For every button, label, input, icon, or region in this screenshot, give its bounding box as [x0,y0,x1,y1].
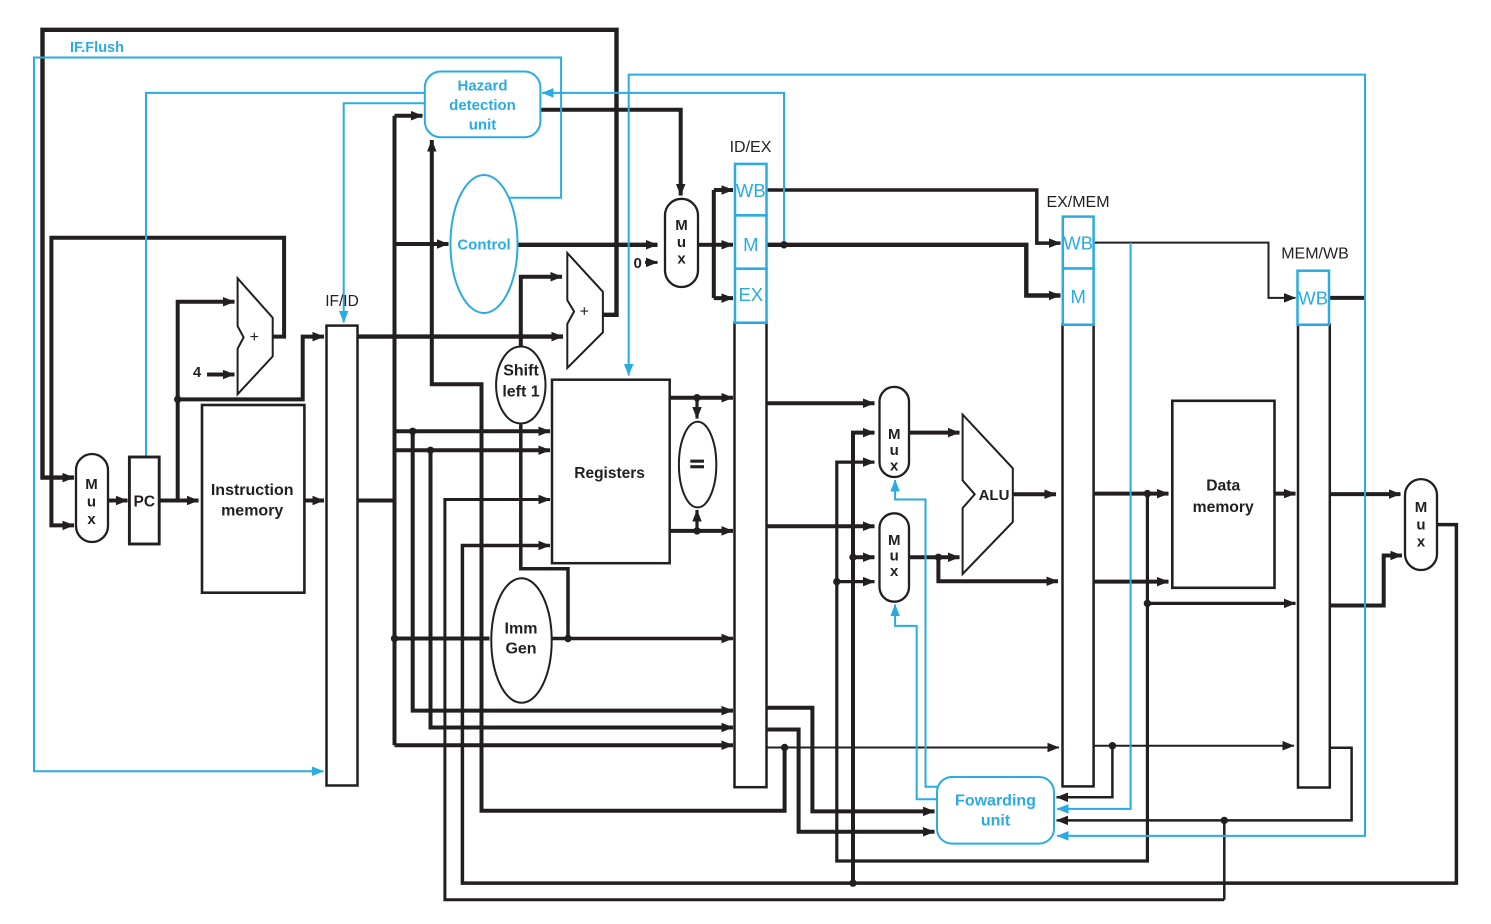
wire PCWrite: hazard unit to PC [146,93,425,456]
pipeline register MEM/WB WB box [1298,271,1330,325]
wire rs1 field down into ID/EX [413,431,733,710]
svg-text:Gen: Gen [505,641,536,658]
svg-text:Data: Data [1206,478,1240,495]
wire IF/ID PC out to adder2 lower input [358,334,564,338]
memory: Instruction memory [202,405,304,593]
wire constant 0 into flush mux [645,261,658,264]
unit: Control ellipse [451,175,518,313]
wire EX/MEM WB bundle to MEM/WB WB [1094,243,1296,298]
wire forward mux B output to ALU [909,555,960,559]
node: PC tap junction [174,396,181,403]
wire RegWrite: MEM/WB WB over the top down to Registers [629,75,1365,376]
wire MEM/WB WB bundle to RegWrite junction [1330,296,1365,300]
svg-text:u: u [890,548,899,565]
mux M1: control zero flush mux [665,199,698,287]
memory: Data memory [1172,401,1274,588]
wire EX/MEM store data to Data memory write port [1094,580,1169,584]
svg-text:ALU: ALU [979,487,1010,504]
svg-text:x: x [890,563,899,580]
svg-text:WB: WB [1063,232,1093,253]
node: WB forward tap at mux B [849,554,856,561]
svg-text:unit: unit [981,812,1011,829]
wire write-back data bus: final mux output down and left to Registers write data [462,525,1456,884]
svg-text:WB: WB [736,180,766,201]
pipeline register ID/EX WB box [735,164,767,216]
wire Imm Gen output to ID/EX [552,637,733,641]
wire Instruction memory to IF/ID [304,499,324,503]
unit: ALU [963,415,1013,574]
pipeline register EX/MEM M box [1063,269,1094,325]
node: write-back bus forward tap [849,879,856,886]
svg-text:u: u [1416,517,1425,534]
wire flush mux output bracket to ID/EX WB M EX [698,243,714,247]
unit: Fowarding unit [937,777,1054,844]
wire ForwardA: forwarding unit to mux A select [895,480,937,787]
svg-text:x: x [87,511,96,528]
wire hazard unit output to flush mux select [540,110,680,196]
wire MEM/WB rd around to forwarding unit [1057,748,1352,821]
wire tap into equality comparator bottom [695,510,698,531]
svg-text:M: M [888,426,901,443]
wire MEM/WB ALU result to final mux [1330,556,1402,606]
wire ForwardB: forwarding unit to mux B select [895,605,937,800]
wire PC tap riser to adder1 upper input [178,302,235,501]
svg-text:0: 0 [634,255,642,272]
adder A1: PC+4 adder [238,278,273,394]
svg-text:IF/ID: IF/ID [325,293,359,310]
wire EX/MEM RegWrite down to forwarding unit [1057,243,1131,809]
svg-text:ID/EX: ID/EX [730,139,772,156]
wire read register 1 into Registers [395,429,551,433]
wire ALU result to EX/MEM [1013,492,1056,496]
mux M0: PC source mux [76,454,108,542]
wire EX/MEM ALU result forward loop to mux A input 2 [837,462,1148,861]
wire WB-forward riser to mux A input 1 [853,433,875,883]
pipeline register IF/ID [327,326,358,786]
node: EX/MEM ALU result forward tap [1144,490,1151,497]
svg-text:M: M [85,476,98,493]
mux M2: forward mux A [880,387,910,477]
svg-text:+: + [580,304,589,321]
wire Registers read data 2 to ID/EX [670,529,733,533]
wire ID/EX rs2 to forwarding unit [767,730,935,832]
svg-text:IF.Flush: IF.Flush [70,40,124,56]
wire IF/ID Write: hazard unit to IF/ID [344,103,425,322]
wire PC mux output to PC [108,499,128,503]
wire MEM/WB read data to final mux [1330,492,1401,496]
wire forward mux A output to ALU [909,431,960,435]
wire ID/EX read data 1 to forward mux A [767,401,875,405]
node: EX/MEM forward tap at mux B [833,578,840,585]
svg-text:Hazard: Hazard [457,77,507,94]
mux M4: write-back mux [1405,479,1437,570]
svg-text:Instruction: Instruction [211,482,294,499]
svg-text:Registers: Registers [574,465,645,482]
wire WB-forward tap to mux B input 1 [853,555,875,559]
register file: Registers [552,380,670,564]
wire ID/EX rd to EX/MEM [767,747,1060,749]
wire EX/MEM ALU result to Data memory address [1094,492,1169,496]
svg-text:M: M [1070,286,1085,307]
svg-text:u: u [87,494,96,511]
wire IF.Flush: from Control around top-left down to IF/ID flush input [34,58,561,772]
wire ID/EX.MemRead tap up to hazard detection unit [542,93,784,245]
wire MEM/WB rd tap down to write register bus [1223,820,1226,899]
mux M3: forward mux B [880,513,910,601]
svg-text:WB: WB [1298,287,1328,308]
node: instruction to Imm Gen junction [391,635,398,642]
svg-text:x: x [1417,534,1426,551]
svg-text:left 1: left 1 [502,384,539,401]
wire ID/EX M bundle to EX/MEM M [767,245,1061,296]
svg-text:M: M [743,234,758,255]
wire Registers read data 1 to ID/EX [670,396,733,400]
wire EX/MEM rd tap to forwarding unit [1057,746,1113,798]
node: immediate to shift junction [564,635,571,642]
wire PC value to IF/ID [178,337,324,400]
node: MEM/WB rd tap [1221,817,1228,824]
wire immediate tap to Shift left 1 input [521,425,568,639]
svg-text:u: u [890,442,899,459]
svg-text:MEM/WB: MEM/WB [1281,246,1349,263]
label comparator equals [690,460,704,469]
svg-text:u: u [677,234,686,251]
svg-text:unit: unit [469,117,497,134]
svg-text:PC: PC [134,494,156,511]
pipeline register ID/EX EX box [735,269,767,323]
svg-text:Imm: Imm [505,621,538,638]
svg-text:x: x [677,251,686,268]
wire store data from mux B to EX/MEM [938,557,1058,581]
svg-text:memory: memory [221,502,283,519]
svg-text:EX/MEM: EX/MEM [1046,194,1109,211]
pipeline register EX/MEM WB box [1063,217,1094,269]
svg-text:4: 4 [193,364,202,381]
pipeline register EX/MEM body [1063,325,1094,787]
wire EX/MEM rd to MEM/WB [1094,745,1294,747]
comparator: equality test ellipse [679,422,716,508]
pipeline register ID/EX body [735,323,767,788]
wire ID/EX rs1 to forwarding unit [767,708,935,812]
node: rs2 tap junction [427,447,434,454]
svg-text:Shift: Shift [503,363,539,380]
node: read data 2 comparator tap [693,527,700,534]
unit: Hazard detection unit [425,72,541,138]
pipeline register ID/EX M box [735,215,767,268]
wire Shift left 1 output to adder2 [521,277,562,346]
wire EX/MEM ALU result tap to MEM/WB [1147,602,1295,605]
svg-text:M: M [675,217,688,234]
node: ALU result to MEM/WB tap [1144,600,1151,607]
wire ID/EX read data 2 to forward mux B [767,524,875,528]
node: store data tap [935,554,942,561]
wire rs2 field down into ID/EX [431,450,734,727]
node: ID/EX MemRead tap [780,241,787,248]
unit: Imm Gen ellipse [491,578,551,703]
register PC [129,457,159,544]
unit: Shift left 1 ellipse [496,347,545,424]
node: read data 1 comparator tap [693,394,700,401]
svg-text:M: M [1415,499,1428,516]
wire write register number bus back to Registers write register [445,500,1224,900]
wire EX/MEM ALU forward tap to mux B input 2 [837,580,875,583]
svg-text:M: M [888,532,901,549]
svg-text:Fowarding: Fowarding [955,792,1036,809]
pipeline register MEM/WB body [1298,325,1330,788]
wire instruction bus: IF/ID out, vertical trunk, top branch to hazard unit [358,499,395,503]
wire PC+4 return: adder1 output right, up, left along y=237.7, down to PC mux input 1 [51,238,284,526]
wire Data memory read data to MEM/WB [1275,492,1296,496]
svg-text:memory: memory [1193,499,1254,516]
wire instruction to Imm Gen [395,637,490,641]
svg-text:Control: Control [457,237,510,254]
wire MEM/WB RegWrite down to forwarding unit [1057,298,1365,836]
node: EX/MEM rd tap [1109,742,1116,749]
wire PC to Instruction memory [159,499,198,503]
wire read register 2 into Registers [395,448,551,452]
wire ID/EX WB bundle to EX/MEM WB [767,190,1061,243]
adder A2: branch target adder [567,253,603,368]
wire ID/EX rd loop back up to hazard detection unit [432,140,785,811]
svg-text:+: + [250,329,259,346]
wire constant 4 into adder1 [207,373,235,377]
node: rs1 tap junction [409,428,416,435]
svg-text:EX: EX [738,284,763,305]
svg-text:detection: detection [449,97,516,114]
wire tap into equality comparator top [695,398,698,419]
wire instruction opcode to Control [395,242,449,246]
node: ID/EX rd tap [781,744,788,751]
wire rd field into ID/EX [395,743,734,747]
wire Control output to flush mux [518,243,658,247]
svg-text:x: x [890,458,899,475]
wire branch-target: adder2 output up over top border down to PC mux input 0 [43,30,617,478]
